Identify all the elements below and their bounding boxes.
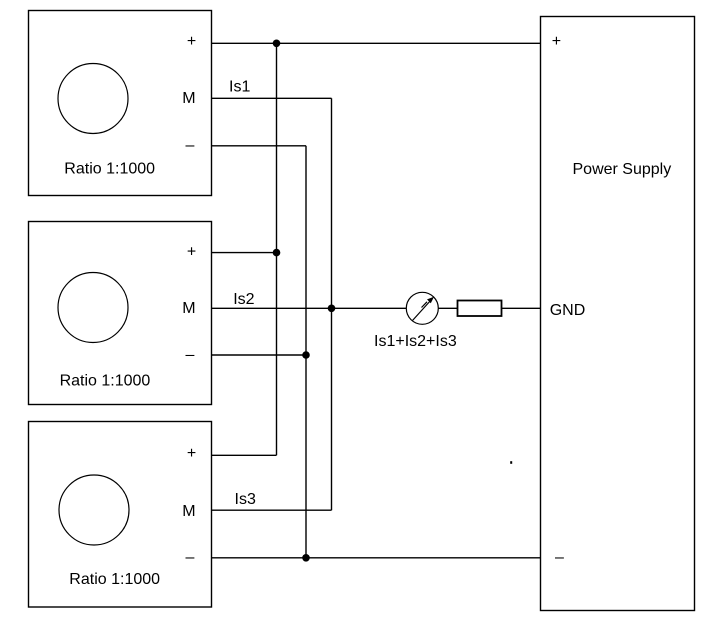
svg-text:M: M	[182, 300, 195, 317]
svg-text:–: –	[186, 137, 195, 154]
svg-text:Is3: Is3	[235, 491, 256, 508]
svg-text:M: M	[182, 503, 195, 520]
svg-text:–: –	[186, 549, 195, 566]
svg-text:+: +	[187, 243, 196, 260]
svg-text:+: +	[187, 445, 196, 462]
svg-text:–: –	[186, 346, 195, 363]
svg-text:+: +	[187, 33, 196, 50]
svg-text:Is1+Is2+Is3: Is1+Is2+Is3	[374, 333, 457, 350]
svg-text:Is1: Is1	[229, 78, 250, 95]
svg-text:Ratio 1:1000: Ratio 1:1000	[64, 161, 155, 178]
svg-text:+: +	[552, 33, 561, 50]
svg-text:Ratio 1:1000: Ratio 1:1000	[60, 372, 151, 389]
svg-text:Power Supply: Power Supply	[573, 161, 672, 178]
svg-text:Is2: Is2	[233, 291, 254, 308]
svg-text:GND: GND	[550, 302, 586, 319]
svg-text:–: –	[555, 549, 564, 566]
svg-text:M: M	[182, 90, 195, 107]
svg-text:Ratio 1:1000: Ratio 1:1000	[69, 571, 160, 588]
